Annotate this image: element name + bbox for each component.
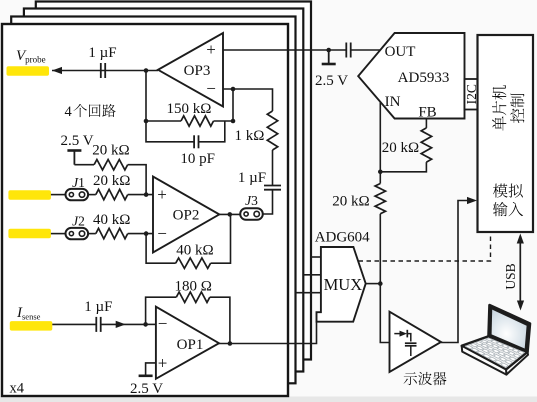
capacitor 1uF input [95,317,97,332]
label analog input [493,184,508,198]
MUX input wires from loops [311,256,321,258]
MUX output node [366,283,381,285]
svg-text:2.5 V: 2.5 V [130,381,163,397]
svg-text:OP3: OP3 [184,63,211,79]
svg-text:IN: IN [385,94,401,110]
svg-text:180 Ω: 180 Ω [174,279,211,295]
wire OP2 output to J3 [219,213,240,215]
svg-text:40 kΩ: 40 kΩ [93,212,130,228]
wire OP3 output to Vprobe [52,70,158,72]
svg-text:1 µF: 1 µF [238,170,266,186]
svg-text:J3: J3 [245,193,258,208]
wire oscilloscope to analog input [441,201,470,343]
2.5V tap on OUT [326,48,331,53]
op-amp OP3 [158,33,223,107]
svg-text:2.5 V: 2.5 V [315,73,348,89]
wire IN [379,102,381,172]
svg-text:OUT: OUT [385,44,416,60]
svg-text:MUX: MUX [324,275,363,294]
oscilloscope trace symbol [394,333,402,335]
svg-text:1 µF: 1 µF [84,299,112,315]
svg-text:ADG604: ADG604 [315,230,370,246]
MCU control box [478,35,534,232]
resistor 20k J1 [88,194,96,196]
capacitor 1uF J3 branch [272,150,274,185]
resistor 20k FB [425,119,427,128]
wire AD5933 OUT to OP3 plus [223,49,346,51]
junction feedback node [144,68,149,73]
loop page 1 [2,24,288,396]
svg-text:AD5933: AD5933 [398,70,450,86]
op-amp OP2 [153,177,219,253]
wire MUX node to oscilloscope [380,284,389,343]
node Vprobe pad [7,66,50,76]
svg-text:1 kΩ: 1 kΩ [235,128,265,144]
resistor 150k feedback [146,71,181,122]
svg-text:−: − [206,79,216,98]
node J2 pad [8,229,51,239]
svg-text:−: − [157,224,167,243]
svg-text:10 pF: 10 pF [180,151,215,167]
I2C link box [465,79,478,110]
svg-text:J2: J2 [72,214,85,229]
svg-text:20 kΩ: 20 kΩ [92,143,129,159]
laptop computer [462,305,530,375]
label oscilloscope [404,372,417,385]
loop page 2 [11,17,295,384]
resistor 180 feedback [146,297,177,324]
svg-text:40 kΩ: 40 kΩ [176,243,213,259]
loop page 3 [24,9,303,372]
oscilloscope [390,312,442,372]
connector J2 [51,233,66,235]
resistor 20k to MUX node [379,172,381,184]
svg-text:+: + [206,40,216,59]
svg-text:x4: x4 [10,381,25,397]
svg-text:2.5 V: 2.5 V [60,133,93,149]
svg-text:150 kΩ: 150 kΩ [167,101,212,117]
loop page 4 [36,2,311,360]
capacitor OUT coupling [345,43,347,58]
capacitor 10pF [146,121,194,142]
resistor 40k feedback [146,234,176,264]
node J1 pad [8,190,51,200]
connector J1 [51,194,66,196]
svg-text:USB: USB [503,263,518,289]
svg-text:J1: J1 [72,175,85,190]
label MCU control (rotated) [492,85,524,130]
resistor 1k [267,111,277,150]
svg-text:4: 4 [65,104,73,120]
op-amp OP1 [156,307,219,379]
2.5V tap OP1 [146,363,156,376]
arrow to Vprobe [52,67,62,74]
svg-text:20 kΩ: 20 kΩ [332,194,369,210]
svg-text:+: + [157,185,167,204]
svg-text:OP1: OP1 [177,337,204,353]
svg-text:−: − [158,314,168,333]
svg-text:20 kΩ: 20 kΩ [382,140,419,156]
wire minus node down [232,89,234,121]
svg-text:+: + [158,354,168,373]
MUX ADG604 [317,247,366,322]
capacitor 1uF output coupling [100,63,102,78]
dashed MCU-to-MUX control line [359,233,491,261]
resistor 20k bias [74,164,94,166]
USB link arrow [519,236,521,308]
svg-text:OP2: OP2 [173,208,200,224]
wire OP3 minus to feedback [223,89,273,111]
svg-text:FB: FB [418,105,436,121]
wire Isense to OP1 [52,323,96,325]
node Isense pad [10,321,53,331]
resistor 40k J2 [88,233,96,235]
svg-text:20 kΩ: 20 kΩ [93,173,130,189]
wire OP1 output to MUX [219,321,317,344]
IC AD5933 [358,33,464,119]
arrow into OP1 [116,321,126,328]
svg-text:1 µF: 1 µF [88,45,116,61]
